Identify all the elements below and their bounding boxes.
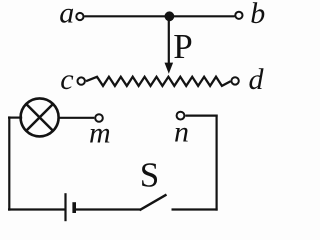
wire battery to switch (76, 208, 141, 210)
wire wiper arrow shaft (168, 16, 170, 64)
battery long plate (64, 193, 66, 221)
lamp L circle (21, 98, 59, 136)
terminal c circle (78, 77, 85, 84)
terminal a circle (76, 13, 83, 20)
battery short plate (72, 202, 76, 213)
svg-text:m: m (89, 116, 111, 149)
svg-text:P: P (173, 27, 192, 66)
wire switch to right corner (172, 208, 218, 210)
wire bottom left to battery (8, 208, 65, 210)
arrowhead of wiper P (165, 63, 174, 74)
node junction dot (165, 11, 175, 21)
lamp cross line 2 (26, 104, 53, 131)
wire left stub to lamp (8, 116, 22, 118)
wire lamp to terminal m (59, 117, 95, 119)
resistor rheostat c-d zigzag (86, 77, 231, 86)
wire top rail a-b (84, 15, 235, 17)
lamp cross line 1 (26, 104, 53, 131)
wire left vertical (8, 116, 10, 210)
svg-text:c: c (60, 63, 73, 96)
terminal b circle (235, 12, 242, 19)
svg-text:d: d (249, 63, 265, 96)
svg-text:n: n (174, 115, 189, 148)
wire right vertical (216, 115, 218, 211)
svg-text:a: a (59, 0, 74, 30)
svg-text:S: S (140, 156, 159, 195)
terminal d circle (231, 77, 238, 84)
terminal m circle (95, 114, 103, 122)
svg-text:b: b (250, 0, 265, 30)
switch S blade (140, 195, 167, 211)
wire terminal n to right corner (185, 114, 217, 116)
terminal n circle (177, 112, 185, 120)
